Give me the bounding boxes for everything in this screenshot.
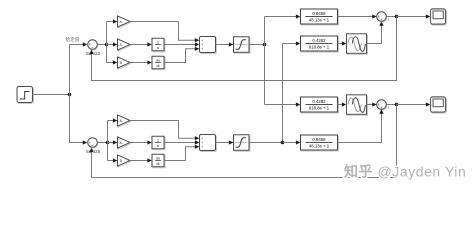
transfer function G11 0.8468/(48.13s+1) [301,9,339,25]
junction controller branch bottom [106,141,110,145]
svg-text:du: du [156,156,160,160]
gain I bottom -K- [118,137,132,149]
wire to gain I top [107,44,114,46]
sum Sum1 [377,12,390,22]
wire to gain D bottom [108,160,114,162]
junction setpoint branch [68,93,72,97]
wire gain branch vertical top [106,22,108,63]
wire G22 to Sum2 [338,114,382,143]
derivative du/dt bottom [152,154,165,168]
svg-text:+: + [201,47,203,51]
svg-text:+: + [380,105,383,110]
gain D bottom 5 [118,155,132,167]
svg-text:-K-: -K- [119,43,124,47]
wire setpoint to Sum22 [70,44,87,46]
wire feedback y1 [92,17,397,81]
svg-text:−: − [91,45,94,50]
svg-text:818.8s + 1: 818.8s + 1 [309,45,330,50]
wire gain I to integrator top [130,44,148,46]
svg-text:dt: dt [157,64,160,68]
wire add to saturation bottom [216,142,230,144]
wire y2 to Scope2 [397,104,427,106]
wire G12 to delay top [338,43,343,45]
add block bottom [200,135,217,152]
transfer function G22 0.8468/(48.13s+1) [301,135,339,151]
wire add to saturation top [216,44,230,46]
svg-text:Sum25: Sum25 [86,149,101,154]
wire step output [33,94,70,96]
wire u2 vertical [282,44,284,143]
transport delay bottom [347,95,368,116]
sum Sum2 [377,100,390,110]
transfer function G21 0.4282/(818.8s+1) [301,97,339,113]
gain D top 5 [118,57,132,69]
svg-text:-K-: -K- [119,119,124,123]
wire gain P to add bottom [130,121,196,139]
svg-text:+: + [380,17,383,22]
wire u2 to G12 [283,43,297,45]
svg-text:818.8s + 1: 818.8s + 1 [309,106,330,111]
svg-text:s: s [157,143,159,148]
scope Scope2 [431,97,447,113]
wire Sum22 output [97,44,106,46]
junction u1 [263,43,267,47]
wire u1 to G21 [265,104,297,106]
wire gain branch vertical bottom [107,121,109,161]
wire gain D to derivative bottom [130,160,148,162]
step source [17,87,34,104]
wire derivative to add bottom [164,147,196,161]
wire derivative to add top [164,49,196,63]
wire Sum1 output [386,16,396,18]
svg-text:48.13s + 1: 48.13s + 1 [309,18,330,23]
wire G11 to Sum1 [338,16,374,18]
wire u2 to G22 [283,142,297,144]
wire gain D to derivative top [130,62,148,64]
junction controller branch top [105,43,109,47]
wire G21 to delay bottom [338,104,343,106]
derivative du/dt top [152,56,165,70]
wire Sum25 output [97,142,107,144]
svg-text:1: 1 [388,18,390,22]
integrator 1/s top [152,38,165,52]
wire feedback y2 [92,105,397,178]
wire to gain P bottom [108,120,114,122]
wire setpoint to Sum25 [70,142,87,144]
integrator 1/s bottom [152,136,165,150]
svg-text:+: + [201,145,203,149]
svg-text:0.8468: 0.8468 [312,137,326,142]
add block top [200,37,217,54]
svg-text:48.13s + 1: 48.13s + 1 [309,144,330,149]
wire u1 to G11 [265,16,297,18]
transport delay top [347,34,368,55]
wire u1 vertical [264,17,266,105]
sum Sum25 [86,138,101,154]
sum Sum22 [86,40,101,56]
svg-text:−: − [91,143,94,148]
wire to gain I bottom [108,142,114,144]
wire setpoint vertical [69,45,71,143]
wire gain P to add top [130,22,196,41]
svg-text:0.4282: 0.4282 [312,99,326,104]
gain P bottom -K- [118,115,132,127]
wire integrator to add bottom [164,142,196,144]
wire gain I to integrator bottom [130,142,148,144]
wire to gain D top [107,62,114,64]
gain P top -K- [118,16,132,28]
svg-text:s: s [157,45,159,50]
wire delay top to Sum1 [367,26,382,44]
scope Scope1 [431,9,447,25]
svg-text:1: 1 [388,106,390,110]
gain I top -K- [118,39,132,51]
junction y1 [395,15,399,19]
svg-text:dt: dt [157,162,160,166]
wire saturation output u2 [249,142,283,144]
wire saturation output u1 [249,44,265,46]
saturation top [234,37,251,54]
wire y1 to Scope1 [397,16,427,18]
svg-text:0.4282: 0.4282 [312,38,326,43]
wire integrator to add top [164,44,196,46]
svg-text:0.8468: 0.8468 [312,11,326,16]
svg-text:du: du [156,58,160,62]
svg-text:给定值: 给定值 [66,36,80,43]
wire delay bottom to Sum2 [367,104,373,106]
svg-text:-K-: -K- [119,141,124,145]
transfer function G12 0.4282/(818.8s+1) [301,36,339,52]
junction u2 [281,141,285,145]
wire to gain P top [107,21,114,23]
saturation bottom [234,135,251,152]
junction y2 [395,103,399,107]
svg-text:知乎 @Jayden Yin: 知乎 @Jayden Yin [344,164,466,180]
wire Sum2 output [386,104,396,106]
svg-text:-K-: -K- [119,20,124,24]
